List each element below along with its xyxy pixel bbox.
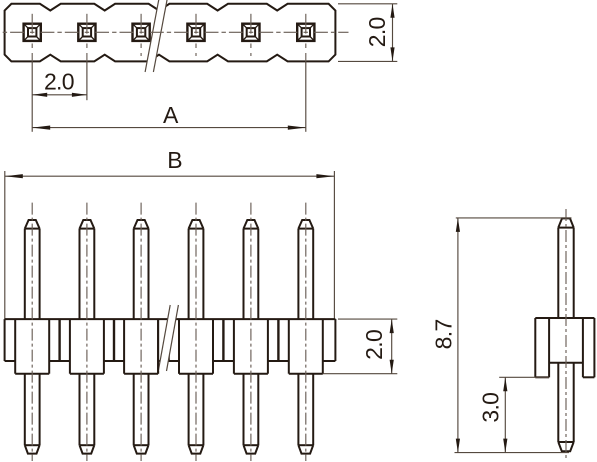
dimension A (32, 102, 306, 130)
plastic housing (front view) (5, 319, 336, 374)
svg-text:B: B (167, 147, 182, 173)
break lines (top view) (145, 0, 167, 72)
pin 3 (front view) (134, 220, 149, 454)
svg-text:2.0: 2.0 (44, 69, 74, 95)
pin 5 (front view) (244, 220, 259, 454)
svg-text:A: A (163, 102, 179, 128)
pin 2 square pad (top view) (78, 24, 95, 41)
pin 3 square pad (top view) (133, 24, 150, 41)
pin 2 (front view) (80, 220, 95, 454)
pin 1 square pad (top view) (24, 24, 41, 41)
dimension 8.7 (431, 218, 572, 453)
svg-text:2.0: 2.0 (364, 17, 390, 47)
svg-text:2.0: 2.0 (361, 330, 387, 360)
pin 6 square pad (top view) (297, 24, 314, 41)
pin 6 (front view) (298, 220, 313, 454)
svg-text:3.0: 3.0 (478, 393, 504, 423)
dimension 2.0 pitch (32, 69, 87, 97)
break lines (front view) (158, 305, 179, 374)
dimension B (5, 147, 335, 319)
pin 4 square pad (top view) (187, 24, 204, 41)
horizontal centerline (top view) (3, 31, 349, 33)
plastic housing (side view) (535, 318, 594, 377)
pin 4 (front view) (189, 220, 204, 454)
pin 5 square pad (top view) (242, 24, 259, 41)
svg-text:8.7: 8.7 (431, 319, 457, 349)
pin centerlines (front view) (32, 203, 306, 461)
pin 1 (front view) (25, 220, 40, 454)
pin vertical centerlines / extension lines (top view) (32, 14, 306, 132)
dimension 3.0 (478, 377, 550, 452)
pin centerline (side view) (565, 209, 567, 461)
dimension 2.0 row height (top right) (338, 4, 397, 62)
pin (side view) (558, 218, 573, 451)
top view body outline (5, 4, 336, 62)
dimension 2.0 housing height (front right) (323, 319, 398, 374)
